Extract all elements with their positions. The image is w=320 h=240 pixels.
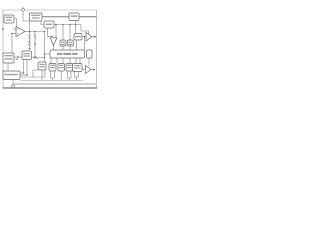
text modbox1 line1 <box>61 42 65 43</box>
comparator input ticks <box>51 38 53 40</box>
wire ramp down2 <box>26 60 28 76</box>
wire bus to modbox2 <box>69 25 71 41</box>
ground bus wire <box>20 80 83 82</box>
text phase control logic <box>57 53 77 55</box>
box B lower left <box>3 71 20 80</box>
wire buffer1 out <box>92 36 95 38</box>
wire comp to logic <box>44 32 46 63</box>
wire pin VIN stub <box>22 7 24 9</box>
wire buffer2 out <box>91 69 94 71</box>
IC boundary border right <box>96 10 98 88</box>
wire box B out1 <box>20 72 24 74</box>
box A error amp bias <box>3 53 14 63</box>
node buffer1 in <box>84 36 86 38</box>
node b2 <box>26 74 28 76</box>
wire phase to driver3 <box>69 58 71 64</box>
node bus4 <box>75 24 77 26</box>
node R3 tap <box>34 43 36 45</box>
box Enable <box>44 21 54 28</box>
wire driver1 outputs <box>51 71 55 78</box>
wire ramp down1 <box>23 60 25 74</box>
node inverting input <box>11 33 13 35</box>
wire bus to comparator right <box>55 25 57 38</box>
text Gm label <box>16 59 19 60</box>
text driver3 line1 <box>67 65 72 66</box>
wire enable to comparator left <box>48 28 53 36</box>
wire phase to driver2 <box>62 58 64 64</box>
buffer U2 triangle <box>86 33 92 42</box>
resistor R1 vertical zigzag <box>29 32 31 42</box>
op-amp input wires <box>13 28 16 30</box>
node comp2 <box>34 31 36 33</box>
node bus2 <box>62 24 64 26</box>
text box1 Vref line2 <box>6 20 12 21</box>
text box B <box>4 74 18 76</box>
bottom border line <box>3 87 97 89</box>
wire box A to box B <box>7 63 9 71</box>
arrowhead output2 <box>93 68 96 71</box>
node gm <box>17 56 19 58</box>
wire R3 bottom <box>34 42 36 58</box>
text driver1 line1 <box>50 65 55 66</box>
wire pullup to bus <box>76 77 78 81</box>
text box1 Vref line1 <box>6 17 13 18</box>
text modbox2 line1 <box>68 42 72 43</box>
wire rightctl to buffer1 <box>82 36 86 38</box>
pin VIN circle <box>22 8 25 11</box>
box pullup driver <box>73 64 83 72</box>
text modbox2 line2 <box>68 44 72 45</box>
text modbox1 line2 <box>61 44 65 45</box>
wire buffer1 down to phase box <box>84 37 86 51</box>
wire pullup outputs <box>75 72 79 78</box>
node mid <box>44 53 46 55</box>
op-amp minus mark <box>17 33 18 35</box>
wire bus corner right <box>81 25 89 35</box>
op-amp U1 <box>16 27 25 37</box>
op-amp plus mark <box>17 28 18 30</box>
IC boundary border top <box>3 9 97 11</box>
node left border junction <box>2 28 4 30</box>
wire OSC to border <box>79 16 97 18</box>
wire enable bus <box>54 24 81 26</box>
box UVLO <box>30 13 43 21</box>
text UVLO line1 <box>31 15 40 16</box>
box ramp generator <box>22 51 32 60</box>
wire OSC bottom to bus <box>75 21 77 34</box>
wire modbox1 down <box>62 46 64 50</box>
wire box B out3 <box>20 70 38 77</box>
wire op-amp output <box>25 31 45 33</box>
resistor R4 horizontal zigzag <box>32 57 45 59</box>
text box X line2 <box>39 66 44 67</box>
text UVLO line2 <box>32 17 40 18</box>
box phase control logic <box>50 50 85 58</box>
wire driver3 outputs <box>68 71 72 78</box>
box driver2 <box>58 64 65 72</box>
wire bus to modbox1 <box>62 25 64 41</box>
box right aux <box>87 50 93 58</box>
box X detect <box>38 62 46 70</box>
wire box B out2 <box>20 74 27 76</box>
node divider tap <box>29 41 30 42</box>
wire driver3 to bus <box>68 78 70 81</box>
node R4 tap <box>34 57 36 59</box>
text Ramp line1 <box>23 53 29 54</box>
substrate bus wire <box>13 83 96 85</box>
pin GND (bottom circle) <box>12 85 15 88</box>
box modbox2 <box>68 40 74 46</box>
wire box A to ramp <box>14 56 22 58</box>
box driver1 <box>49 64 56 72</box>
wire aux to buffer2 <box>88 58 90 66</box>
text box A line2 <box>4 58 12 59</box>
wire modbox2 down <box>69 46 71 50</box>
arrowhead into comparator <box>51 36 53 38</box>
text OSC <box>71 15 78 17</box>
wire LDO to phase box <box>76 40 78 50</box>
comparator down triangle <box>50 38 57 46</box>
wire phase to driver1 <box>50 58 52 64</box>
wire UVLO down <box>41 21 44 25</box>
text driver2 line2 <box>59 67 64 68</box>
text Ramp line2 <box>23 55 29 56</box>
text box A line1 <box>4 55 12 56</box>
wire driver2 output <box>60 71 62 81</box>
wire phase to pullup a <box>75 58 77 64</box>
resistor R2 vertical zigzag <box>29 42 31 49</box>
box OSC <box>69 13 79 21</box>
wire pullup to buffer2 <box>82 69 86 71</box>
wire branch to phase box <box>45 53 51 55</box>
box rightctl <box>74 34 82 41</box>
node R4 end <box>44 57 46 59</box>
node comp3 <box>44 31 46 33</box>
wire box X down <box>41 70 43 81</box>
node comp1 <box>29 31 31 33</box>
box driver3 <box>66 64 73 72</box>
text LDO <box>75 36 81 38</box>
text driver1 line2 <box>50 67 55 68</box>
text smudge bands <box>4 15 81 76</box>
ground <box>28 48 31 50</box>
wire driver1 to bus <box>52 78 54 81</box>
text driver3 line2 <box>67 67 72 68</box>
wire UVLO to OSC <box>42 16 69 18</box>
text phase word3 <box>72 53 77 55</box>
text phase word1 <box>57 53 62 55</box>
wire comparator out <box>53 46 55 51</box>
text pullup line1 <box>74 65 80 66</box>
box reference Vref <box>4 15 14 23</box>
wire pin to divider <box>23 11 30 31</box>
wire GND pin stub <box>12 80 14 85</box>
text box X line1 <box>39 64 44 65</box>
wire phase to driver1b <box>56 58 58 64</box>
text phase word2 <box>63 53 71 55</box>
text Enable <box>46 24 53 26</box>
node bus3 <box>69 24 71 26</box>
buffer U3 triangle <box>86 66 92 74</box>
node b1 <box>23 72 25 74</box>
wire Vref to op-amp <box>14 19 17 30</box>
text pullup line2 <box>74 67 80 68</box>
IC boundary border left <box>2 10 4 88</box>
wire y77 to box X <box>33 70 45 77</box>
text driver2 line1 <box>59 65 64 66</box>
wire phase to pullup b <box>79 58 81 64</box>
resistor R3 vertical zigzag <box>34 32 36 42</box>
wire feedback down to box A <box>11 34 13 54</box>
arrowhead output1 <box>94 35 97 38</box>
node bus1 <box>55 24 57 26</box>
box modbox1 <box>60 40 66 46</box>
